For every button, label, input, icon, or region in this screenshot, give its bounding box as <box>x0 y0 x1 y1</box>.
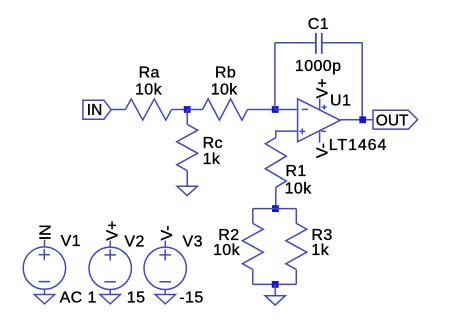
wire node N003 to R3 top <box>276 208 297 210</box>
wire Ra to node N001 <box>172 109 188 111</box>
svg-text:10k: 10k <box>285 180 313 197</box>
wire R3 top stub <box>295 209 297 224</box>
wire IN to Ra <box>111 109 125 111</box>
svg-text:V2: V2 <box>124 233 144 250</box>
resistor R2 <box>242 223 263 269</box>
svg-text:V1: V1 <box>61 233 81 250</box>
svg-text:1k: 1k <box>203 151 221 168</box>
wire V2 to ground <box>109 290 111 295</box>
svg-text:1000p: 1000p <box>295 58 342 75</box>
svg-text:1k: 1k <box>311 242 329 259</box>
svg-text:V-: V- <box>314 143 331 158</box>
svg-text:10k: 10k <box>211 82 239 99</box>
op-amp V+ pin marker <box>322 106 327 108</box>
svg-text:R1: R1 <box>285 163 306 180</box>
junction node N002 (inverting input) <box>272 106 279 113</box>
resistor Rc <box>177 124 198 170</box>
wire node N001 to Rb <box>187 109 202 111</box>
svg-text:Rb: Rb <box>215 65 236 82</box>
svg-text:C1: C1 <box>308 16 329 33</box>
svg-text:V+: V+ <box>104 221 121 241</box>
wire flag to V2 <box>109 241 111 248</box>
wire V3 to ground <box>164 290 166 295</box>
wire flag IN to V1 <box>44 240 46 247</box>
svg-text:IN: IN <box>37 224 54 240</box>
junction node N004 (bottom) <box>272 281 279 288</box>
junction node N003 <box>272 205 279 212</box>
wire C1 to feedback right <box>322 42 362 44</box>
op-amp V- pin stub <box>319 131 321 143</box>
V2 plus marker <box>104 254 116 256</box>
svg-text:V+: V+ <box>314 78 331 98</box>
svg-text:10k: 10k <box>213 242 241 259</box>
wire R3 bottom stub <box>295 269 297 284</box>
op-amp V- pin marker <box>321 130 326 132</box>
voltage source V1 <box>23 247 65 289</box>
junction node N001 <box>184 106 191 113</box>
ground (below Rc) <box>177 186 197 195</box>
svg-text:Rc: Rc <box>203 135 223 152</box>
wire R2 bottom stub <box>252 269 254 284</box>
capacitor C1 <box>315 33 317 54</box>
V1 minus marker <box>39 281 51 283</box>
ground (below V3) <box>155 295 175 304</box>
wire Rb to node N002 <box>248 109 276 111</box>
junction node OUT <box>359 116 366 123</box>
svg-text:U1: U1 <box>330 93 351 110</box>
wire feedback top left to C1 <box>275 42 316 44</box>
wire R1 to node N003 <box>275 187 277 208</box>
wire op-amp non-inverting input to R1 <box>276 131 298 138</box>
svg-text:Ra: Ra <box>139 65 160 82</box>
op-amp V+ pin stub <box>319 98 321 110</box>
wire node N002 to op-amp inverting input <box>275 109 298 111</box>
wire node N001 down to Rc <box>186 110 188 125</box>
ground (below V2) <box>100 295 120 304</box>
wire op-amp output to OUT <box>340 119 373 121</box>
op-amp inverting input marker <box>302 108 308 110</box>
ground (below V1) <box>34 295 54 304</box>
V3 minus marker <box>159 281 171 283</box>
resistor R1 <box>265 138 286 188</box>
wire flag to V3 <box>164 241 166 248</box>
wire Rc to ground <box>186 171 188 187</box>
port IN <box>83 100 111 119</box>
svg-text:V3: V3 <box>183 233 203 250</box>
resistor R3 <box>286 223 307 269</box>
port OUT <box>373 110 418 129</box>
resistor Ra <box>125 99 171 120</box>
svg-text:V-: V- <box>159 225 176 240</box>
op-amp non-inverting input marker <box>299 130 305 132</box>
op-amp U1 triangle <box>298 99 341 142</box>
wire feedback: node N002 up <box>274 43 276 110</box>
wire node N003 to R2 top <box>253 208 276 210</box>
svg-text:-15: -15 <box>179 290 203 307</box>
V2 minus marker <box>104 281 116 283</box>
wire bottom R2 to R3 <box>253 283 296 285</box>
svg-text:AC 1: AC 1 <box>60 289 97 306</box>
svg-text:IN: IN <box>87 102 103 119</box>
voltage source V3 <box>144 247 186 289</box>
svg-text:OUT: OUT <box>376 112 409 129</box>
wire V1 to ground <box>44 289 46 294</box>
svg-text:LT1464: LT1464 <box>329 137 387 154</box>
wire node N004 to ground <box>274 284 276 295</box>
wire R2 top stub <box>252 209 254 224</box>
svg-text:10k: 10k <box>135 82 163 99</box>
svg-text:15: 15 <box>127 289 146 306</box>
V3 plus marker <box>159 254 171 256</box>
ground (below R2 R3) <box>265 296 285 305</box>
V1 plus marker <box>39 254 51 256</box>
voltage source V2 <box>89 247 131 289</box>
wire feedback right down to output node <box>361 43 363 120</box>
resistor Rb <box>203 99 248 120</box>
